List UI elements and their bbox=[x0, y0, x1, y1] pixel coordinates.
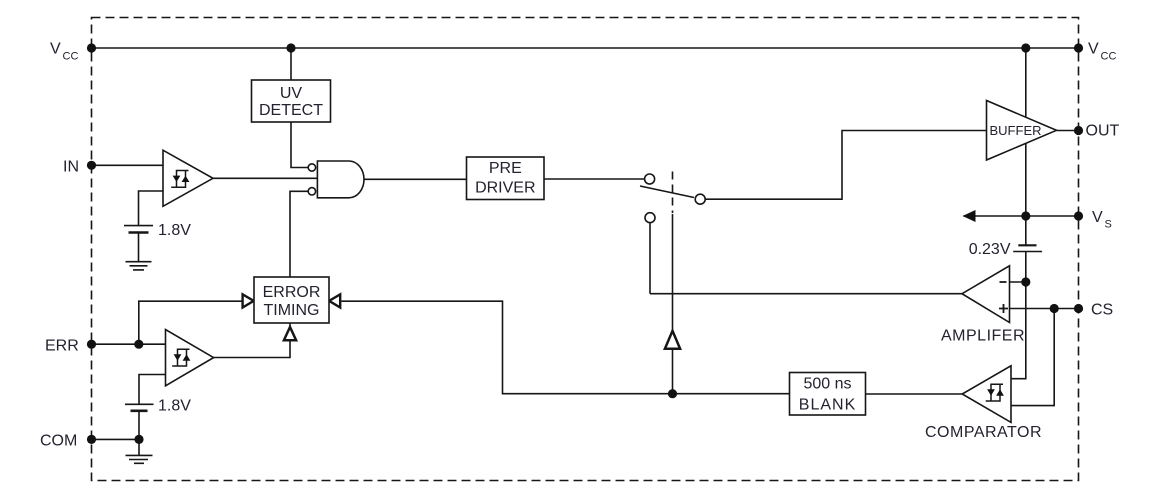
svg-text:COM: COM bbox=[40, 433, 77, 450]
svg-text:DRIVER: DRIVER bbox=[475, 179, 535, 196]
svg-text:COMPARATOR: COMPARATOR bbox=[925, 424, 1042, 441]
svg-text:V: V bbox=[1092, 209, 1103, 226]
svg-text:DETECT: DETECT bbox=[259, 102, 323, 119]
svg-text:BLANK: BLANK bbox=[799, 396, 856, 413]
svg-text:IN: IN bbox=[63, 159, 79, 176]
svg-text:UV: UV bbox=[280, 85, 303, 102]
svg-text:AMPLIFER: AMPLIFER bbox=[941, 328, 1025, 345]
svg-text:CC: CC bbox=[63, 51, 79, 63]
svg-text:CC: CC bbox=[1101, 51, 1117, 63]
svg-text:CS: CS bbox=[1091, 302, 1113, 319]
svg-text:0.23V: 0.23V bbox=[969, 241, 1011, 258]
svg-text:V: V bbox=[1088, 41, 1099, 58]
svg-text:1.8V: 1.8V bbox=[158, 398, 191, 415]
svg-text:TIMING: TIMING bbox=[264, 302, 320, 319]
svg-text:500 ns: 500 ns bbox=[803, 376, 851, 393]
svg-text:V: V bbox=[50, 41, 61, 58]
svg-text:ERR: ERR bbox=[45, 338, 79, 355]
svg-text:BUFFER: BUFFER bbox=[990, 123, 1042, 138]
svg-text:1.8V: 1.8V bbox=[158, 222, 191, 239]
svg-text:OUT: OUT bbox=[1086, 123, 1120, 140]
svg-text:PRE: PRE bbox=[489, 160, 522, 177]
svg-text:S: S bbox=[1105, 219, 1112, 231]
svg-text:ERROR: ERROR bbox=[263, 284, 321, 301]
